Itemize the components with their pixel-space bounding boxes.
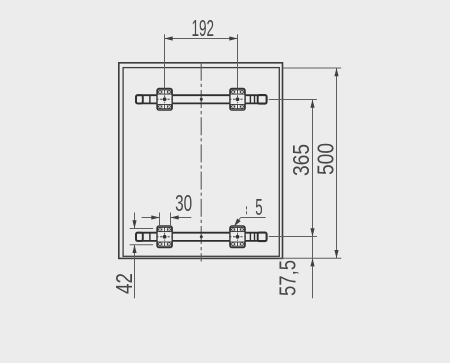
svg-text:42: 42 [111,273,137,294]
svg-text:500: 500 [312,143,338,175]
svg-text:57,5: 57,5 [274,260,300,296]
svg-text:192: 192 [192,15,215,41]
svg-text:365: 365 [288,144,314,176]
svg-text:5: 5 [255,194,262,220]
svg-text:30: 30 [175,190,192,216]
